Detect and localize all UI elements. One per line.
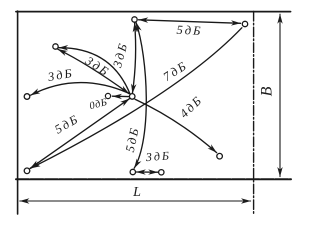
svg-text:3дБ: 3дБ: [110, 40, 130, 70]
svg-text:3дБ: 3дБ: [144, 148, 171, 164]
node I (left-middle antenna): [24, 94, 30, 100]
wire D-I arc (3dB): [31, 83, 129, 96]
node C (upper-left antenna): [53, 44, 58, 49]
dimension line B (right): [279, 14, 281, 176]
wire D-C upper arc (3dB): [59, 48, 130, 94]
deck outline: left border (extended down as L extension line): [17, 11, 19, 214]
node H (right-lower antenna): [217, 153, 223, 159]
svg-text:5дБ: 5дБ: [123, 125, 142, 153]
node F (bottom antenna 1): [130, 169, 135, 174]
wire B-E curve (7dB): [31, 28, 242, 168]
deck outline: top border: [16, 11, 291, 13]
wire D-H (4dB): [135, 99, 217, 152]
node E (bottom-left antenna): [24, 168, 30, 174]
node G (bottom antenna 2): [159, 170, 164, 175]
wire A-F curve (5dB, double arrow): [134, 22, 146, 168]
deck outline: right border (dash-dot axis, extended down): [253, 12, 255, 216]
dimension line L (bottom): [20, 200, 251, 202]
svg-text:3дБ: 3дБ: [46, 66, 75, 84]
svg-text:0дБ: 0дБ: [88, 97, 108, 112]
wire D-D2 short arrow (0dB): [112, 95, 128, 97]
wire E-D (5dB, double arrow): [30, 99, 129, 169]
node D (center antenna): [129, 94, 135, 100]
wire F-G (3dB, double arrow): [136, 171, 158, 173]
svg-text:4дБ: 4дБ: [177, 93, 205, 121]
deck outline: bottom border (extended right as B extension line): [16, 178, 291, 180]
svg-text:B: B: [259, 86, 276, 96]
wire A-D (3dB, double arrow): [132, 23, 135, 94]
node A (top antenna): [132, 17, 137, 22]
wire A-B (5dB, double arrow): [139, 20, 241, 24]
node B (top-right antenna): [242, 21, 247, 26]
svg-text:5дБ: 5дБ: [176, 23, 203, 38]
svg-text:7дБ: 7дБ: [161, 58, 190, 84]
svg-text:L: L: [132, 185, 141, 200]
node D2 (antenna next to center): [105, 93, 110, 98]
wire C-D lower arc (3dB, double arrow): [58, 49, 129, 93]
svg-text:5дБ: 5дБ: [52, 111, 81, 136]
svg-text:3дБ: 3дБ: [82, 53, 112, 79]
